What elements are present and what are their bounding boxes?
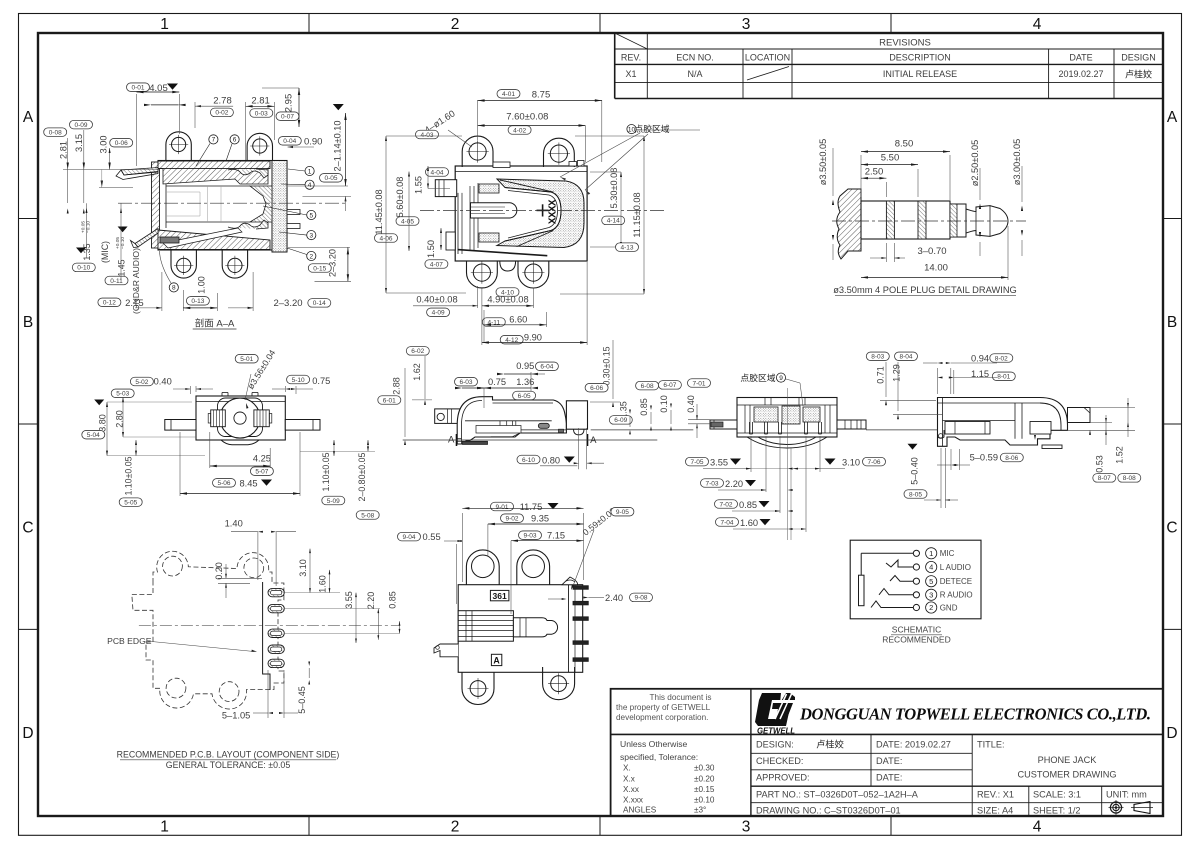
svg-text:1: 1 xyxy=(160,16,169,33)
bottom pads dark xyxy=(463,441,488,444)
dim 0.85 back xyxy=(715,500,738,509)
svg-text:X.: X. xyxy=(623,764,631,773)
front view bottom bulge xyxy=(221,440,259,445)
plug insulator ring 1 xyxy=(886,201,894,239)
plug body xyxy=(861,201,950,239)
svg-text:D: D xyxy=(1166,725,1177,742)
side view body outline xyxy=(457,397,566,444)
dim 3.10 back xyxy=(825,459,836,465)
front view barrel circle xyxy=(220,398,260,438)
svg-text:X.x: X.x xyxy=(623,774,635,783)
svg-text:0.30±0.15: 0.30±0.15 xyxy=(602,346,612,385)
bottom view body xyxy=(458,585,583,673)
bottom view top ear right xyxy=(517,550,550,585)
svg-text:2.50: 2.50 xyxy=(865,166,884,177)
svg-text:0.85: 0.85 xyxy=(739,500,757,510)
svg-text:0.80: 0.80 xyxy=(542,455,560,465)
svg-text:6-05: 6-05 xyxy=(518,393,531,400)
svg-text:8-05: 8-05 xyxy=(909,491,922,498)
pcb center line xyxy=(139,625,399,627)
schematic pin R AUDIO xyxy=(913,592,919,598)
pcb layout dashed outline xyxy=(132,551,284,709)
svg-text:2: 2 xyxy=(451,819,460,836)
terminal bar y 618.6 xyxy=(573,617,588,621)
svg-text:9-08: 9-08 xyxy=(634,595,647,602)
front view left contact window xyxy=(211,410,226,427)
svg-text:0-02: 0-02 xyxy=(215,110,228,117)
svg-text:剖面 A–A: 剖面 A–A xyxy=(195,317,235,329)
svg-text:7-04: 7-04 xyxy=(720,519,733,526)
inner shield wall lines xyxy=(505,188,561,242)
svg-text:DATE:: DATE: xyxy=(876,756,902,766)
top view center line xyxy=(420,209,664,211)
svg-text:6: 6 xyxy=(233,137,237,144)
top view: bottom ear left xyxy=(467,261,498,288)
svg-text:MIC: MIC xyxy=(940,549,955,558)
svg-text:8.75: 8.75 xyxy=(532,89,551,100)
svg-text:2.81: 2.81 xyxy=(251,96,270,107)
pcb dashed ear circle 4 xyxy=(219,682,239,702)
pcb pad at y 608.6 xyxy=(268,604,284,612)
svg-text:APPROVED:: APPROVED: xyxy=(756,773,810,783)
left flange verticals xyxy=(457,193,459,254)
svg-text:UNIT: mm: UNIT: mm xyxy=(1106,790,1147,800)
top-right step tabs xyxy=(569,162,577,167)
svg-text:8: 8 xyxy=(172,285,176,292)
section A-A body outline xyxy=(158,161,287,251)
svg-text:DESIGN:: DESIGN: xyxy=(756,740,794,750)
svg-text:8.45: 8.45 xyxy=(239,478,257,488)
svg-text:ANGLES: ANGLES xyxy=(623,806,657,815)
361 marking box xyxy=(490,590,509,600)
top view: mounting ear left xyxy=(462,136,493,167)
plug flange hatched xyxy=(837,189,861,259)
svg-text:SHEET: 1/2: SHEET: 1/2 xyxy=(1033,806,1081,816)
svg-text:R AUDIO: R AUDIO xyxy=(940,591,973,600)
svg-text:9-05: 9-05 xyxy=(616,509,629,516)
svg-text:PHONE JACK: PHONE JACK xyxy=(1038,755,1098,765)
left terminal top view xyxy=(435,180,456,197)
svg-text:REVISIONS: REVISIONS xyxy=(879,38,931,49)
svg-text:6-01: 6-01 xyxy=(383,397,396,404)
projection symbol circle xyxy=(1110,802,1121,813)
left dim lines xyxy=(63,169,160,171)
small contact blocks xyxy=(479,184,499,193)
dim 0.40 back xyxy=(688,379,711,388)
dim 3.55 back xyxy=(686,457,709,466)
GETWELL logo xyxy=(755,693,795,736)
svg-text:D: D xyxy=(22,725,33,742)
svg-text:4.90±0.08: 4.90±0.08 xyxy=(487,294,528,304)
svg-text:8-01: 8-01 xyxy=(997,374,1010,381)
svg-text:±0.15: ±0.15 xyxy=(694,785,715,794)
dim 1.60 back xyxy=(716,518,739,527)
svg-text:0.20: 0.20 xyxy=(214,562,224,580)
svg-text:4-12: 4-12 xyxy=(505,337,518,344)
svg-text:1.52: 1.52 xyxy=(1114,446,1124,464)
dim 0.80 side bottom xyxy=(517,455,540,464)
svg-text:A: A xyxy=(1167,109,1178,126)
svg-text:±0.30: ±0.30 xyxy=(694,764,715,773)
svg-text:2.95: 2.95 xyxy=(284,94,295,113)
svg-text:A: A xyxy=(590,435,597,446)
section A-A view: top mounting ear left xyxy=(166,132,191,161)
svg-text:2: 2 xyxy=(451,16,460,33)
svg-text:1: 1 xyxy=(929,549,933,558)
svg-text:0-14: 0-14 xyxy=(313,300,326,307)
svg-text:7.60±0.08: 7.60±0.08 xyxy=(506,112,548,123)
svg-text:0-10: 0-10 xyxy=(77,265,90,272)
svg-text:5–1.05: 5–1.05 xyxy=(222,711,250,721)
svg-text:5-07: 5-07 xyxy=(255,469,268,476)
top wall hatched (shell) xyxy=(158,161,270,169)
top wall hatched (insulator) xyxy=(163,169,268,185)
shield inner cavity diagonals xyxy=(500,180,554,192)
plug center line xyxy=(832,220,1026,222)
top latch step xyxy=(493,162,510,168)
svg-text:0-07: 0-07 xyxy=(281,114,294,121)
svg-text:DRAWING NO.: C–ST0326D0T–01: DRAWING NO.: C–ST0326D0T–01 xyxy=(756,806,901,816)
back view left wing xyxy=(710,420,737,429)
svg-text:4-13: 4-13 xyxy=(620,244,633,251)
svg-text:B: B xyxy=(23,314,33,331)
svg-text:4: 4 xyxy=(1033,819,1042,836)
schematic box xyxy=(850,540,981,619)
svg-text:0.40: 0.40 xyxy=(686,395,696,413)
svg-text:1.40: 1.40 xyxy=(225,519,243,529)
back view body xyxy=(737,398,837,438)
svg-text:1.60: 1.60 xyxy=(317,575,327,593)
dim 1.62 side xyxy=(406,347,429,356)
svg-text:2.81: 2.81 xyxy=(59,141,69,159)
dim 2.20 back xyxy=(701,479,724,488)
plug step section xyxy=(950,204,966,237)
svg-text:7.15: 7.15 xyxy=(547,531,565,541)
svg-text:development corporation.: development corporation. xyxy=(616,713,708,722)
svg-text:0.40: 0.40 xyxy=(154,377,172,387)
svg-text:5-09: 5-09 xyxy=(327,498,340,505)
revision table corner diagonal xyxy=(615,33,648,49)
svg-text:2.40: 2.40 xyxy=(605,593,623,603)
right end cap stippled xyxy=(272,161,287,253)
svg-text:9.90: 9.90 xyxy=(524,332,542,342)
svg-text:9-02: 9-02 xyxy=(505,516,518,523)
svg-text:4-03: 4-03 xyxy=(420,132,433,139)
svg-text:5.30±0.08: 5.30±0.08 xyxy=(609,168,619,209)
svg-text:4-07: 4-07 xyxy=(430,261,443,268)
upper left contact spring plate xyxy=(121,168,158,176)
side view inner structure xyxy=(465,420,552,422)
svg-text:3.00: 3.00 xyxy=(99,136,109,154)
front view right wing xyxy=(285,420,320,431)
svg-text:5-06: 5-06 xyxy=(217,480,230,487)
svg-text:N/A: N/A xyxy=(687,69,702,79)
top view body outline xyxy=(455,166,587,261)
leg at 751 xyxy=(749,422,751,434)
back view bottom arc xyxy=(737,437,837,445)
svg-text:0.85: 0.85 xyxy=(639,398,649,416)
right view terminal xyxy=(1068,408,1091,423)
svg-text:DESCRIPTION: DESCRIPTION xyxy=(889,53,951,63)
svg-text:X.xxx: X.xxx xyxy=(623,796,643,805)
right view inner elbow xyxy=(1040,403,1061,430)
svg-text:8-02: 8-02 xyxy=(995,355,1008,362)
bottom mounting ear right xyxy=(222,250,247,278)
svg-text:1.50: 1.50 xyxy=(426,240,436,258)
balloon 2 xyxy=(307,251,316,260)
svg-text:6-09: 6-09 xyxy=(614,417,627,424)
svg-text:0-05: 0-05 xyxy=(324,175,337,182)
horseshoe stippled shield xyxy=(497,179,584,248)
svg-text:DATE: 2019.02.27: DATE: 2019.02.27 xyxy=(876,740,951,750)
right view bottom tab xyxy=(1042,445,1062,449)
location diagonal mark xyxy=(747,67,789,81)
svg-text:TITLE:: TITLE: xyxy=(977,740,1005,750)
svg-text:5-05: 5-05 xyxy=(124,499,137,506)
svg-text:DESIGN: DESIGN xyxy=(1121,53,1156,63)
balloon 4 xyxy=(305,180,314,189)
svg-text:DETECE: DETECE xyxy=(940,577,972,586)
left lower step xyxy=(446,232,455,250)
svg-text:3.55: 3.55 xyxy=(710,457,728,467)
svg-text:2.78: 2.78 xyxy=(213,96,232,107)
svg-text:DONGGUAN TOPWELL ELECTRONICS: DONGGUAN TOPWELL ELECTRONICS CO.,LTD. xyxy=(799,705,1151,724)
svg-text:SIZE: A4: SIZE: A4 xyxy=(977,806,1013,816)
svg-text:PCB EDGE: PCB EDGE xyxy=(107,636,152,646)
svg-text:点胶区域: 点胶区域 xyxy=(740,372,775,383)
svg-text:0.75: 0.75 xyxy=(312,376,330,386)
svg-text:ø3.50mm 4 POLE PLUG DETAIL: ø3.50mm 4 POLE PLUG DETAIL DRAWING xyxy=(833,285,1017,295)
bottom view top ear left xyxy=(466,550,499,585)
svg-text:ø3.00±0.05: ø3.00±0.05 xyxy=(1012,139,1022,185)
svg-text:RECOMMENDED P.C.B. LAYOUT (: RECOMMENDED P.C.B. LAYOUT (COMPONENT SID… xyxy=(117,749,340,759)
svg-text:5-02: 5-02 xyxy=(135,379,148,386)
pcb pad at y 592.6 xyxy=(268,588,284,596)
side view inner elbow curve xyxy=(462,401,483,445)
svg-text:6-06: 6-06 xyxy=(590,385,603,392)
svg-text:specified, Tolerance:: specified, Tolerance: xyxy=(620,752,698,762)
svg-text:1.60: 1.60 xyxy=(740,518,758,528)
svg-text:SCHEMATIC: SCHEMATIC xyxy=(892,625,941,635)
svg-text:2–3.20: 2–3.20 xyxy=(273,298,302,309)
svg-text:0-09: 0-09 xyxy=(74,122,87,129)
svg-text:the property of GETWELL: the property of GETWELL xyxy=(616,703,711,712)
bottom view striped block (pin base) xyxy=(458,611,513,642)
svg-text:3.55: 3.55 xyxy=(344,591,354,609)
back view right wing xyxy=(837,420,866,429)
svg-text:1: 1 xyxy=(160,819,169,836)
side view right panel xyxy=(566,401,587,429)
svg-text:INITIAL RELEASE: INITIAL RELEASE xyxy=(883,69,957,79)
bottom dims xyxy=(98,298,121,307)
svg-text:2.88: 2.88 xyxy=(392,377,402,395)
pcb pad at y 649.2 xyxy=(268,645,284,653)
datum arrows on mounting line right view xyxy=(1089,430,1091,435)
funnel hatched block xyxy=(250,186,272,222)
small dark oval detail xyxy=(538,423,549,428)
svg-text:LOCATION: LOCATION xyxy=(745,53,790,63)
svg-text:0.95: 0.95 xyxy=(516,361,534,371)
svg-text:5-01: 5-01 xyxy=(240,356,253,363)
pcb edge solid line xyxy=(263,582,270,690)
front view right contact window xyxy=(254,410,269,427)
svg-text:5-04: 5-04 xyxy=(87,432,100,439)
balloon 0-05 xyxy=(320,174,343,183)
A marking box xyxy=(491,654,501,665)
svg-text:8.50: 8.50 xyxy=(895,139,914,150)
svg-text:ø2.50±0.05: ø2.50±0.05 xyxy=(970,140,980,186)
plug neck and tip xyxy=(966,206,1008,237)
svg-text:2–1.14±0.10: 2–1.14±0.10 xyxy=(333,120,343,171)
svg-text:2: 2 xyxy=(309,253,313,260)
bottom view corner detail xyxy=(562,577,578,585)
svg-text:XXXX: XXXX xyxy=(548,199,559,224)
svg-text:4-01: 4-01 xyxy=(502,91,515,98)
svg-text:9: 9 xyxy=(779,375,783,382)
svg-text:ECN NO.: ECN NO. xyxy=(676,53,714,63)
bottom mounting ear left xyxy=(171,250,196,278)
bottom view bottom ear right xyxy=(543,667,575,700)
svg-text:0-13: 0-13 xyxy=(191,298,204,305)
projection symbol cone xyxy=(1134,802,1150,814)
dim 7.15 bottom view xyxy=(519,531,542,540)
zone row dividers xyxy=(19,218,39,220)
leg at 780 xyxy=(778,422,780,434)
svg-text:1.35: 1.35 xyxy=(82,243,92,260)
svg-text:X.xx: X.xx xyxy=(623,785,639,794)
schematic pin MIC xyxy=(913,550,919,556)
svg-text:Unless Otherwise: Unless Otherwise xyxy=(620,739,688,749)
dim 0.55 bottom view xyxy=(398,532,421,541)
svg-text:0.55: 0.55 xyxy=(423,532,441,542)
plus mark xyxy=(537,209,549,211)
svg-text:5–0.59: 5–0.59 xyxy=(970,453,998,463)
schematic sleeve bar xyxy=(859,575,865,606)
right view inner verticals xyxy=(1014,403,1016,439)
dim 0.75 side xyxy=(455,377,478,386)
dim 11.75 bottom view xyxy=(491,502,514,511)
plug insulator ring 2 xyxy=(918,201,926,239)
revision table xyxy=(614,33,616,99)
svg-text:4-02: 4-02 xyxy=(513,127,526,134)
svg-text:0.94: 0.94 xyxy=(971,354,989,364)
terminal bar y 587.5 xyxy=(573,586,588,590)
svg-text:A: A xyxy=(493,656,500,666)
svg-text:C: C xyxy=(22,520,33,537)
svg-text:2019.02.27: 2019.02.27 xyxy=(1058,69,1103,79)
svg-text:2.20: 2.20 xyxy=(725,479,743,489)
svg-text:1.10±0.05: 1.10±0.05 xyxy=(124,456,134,495)
svg-text:REV.: X1: REV.: X1 xyxy=(977,790,1014,800)
svg-text:3.80: 3.80 xyxy=(98,414,108,432)
svg-text:3: 3 xyxy=(742,16,751,33)
dim 3.80 / 2.80 front xyxy=(94,400,104,406)
zone column dividers xyxy=(308,14,310,34)
front view small top tabs xyxy=(221,393,223,397)
svg-text:8-06: 8-06 xyxy=(1005,455,1018,462)
dim ø3.56 front xyxy=(235,354,258,363)
svg-text:1.29: 1.29 xyxy=(892,364,902,382)
pcb pad at y 663.4 xyxy=(268,659,284,667)
pcb dashed ear circle 1 xyxy=(163,556,183,576)
dim 0.71 / 1.29 right xyxy=(866,352,889,361)
terminal bar y 642.6 xyxy=(573,641,588,645)
leg at 820 xyxy=(818,422,820,434)
left lower dims (MIC / GND&R AUDIO) xyxy=(76,248,86,254)
svg-text:点胶区域: 点胶区域 xyxy=(634,123,669,134)
svg-text:5.50: 5.50 xyxy=(881,152,900,163)
svg-text:4-04: 4-04 xyxy=(430,169,443,176)
svg-text:RECOMMENDED: RECOMMENDED xyxy=(882,635,950,645)
svg-text:1: 1 xyxy=(308,168,312,175)
svg-text:5.60±0.08: 5.60±0.08 xyxy=(395,177,405,218)
left dims: balloons xyxy=(44,128,67,137)
bottom view pin shaft xyxy=(513,618,557,637)
terminal bar y 603.1 xyxy=(573,601,588,605)
svg-text:7-06: 7-06 xyxy=(867,459,880,466)
svg-text:L AUDIO: L AUDIO xyxy=(940,563,971,572)
svg-text:5-10: 5-10 xyxy=(292,377,305,384)
svg-text:7-05: 7-05 xyxy=(690,459,703,466)
svg-text:1.36: 1.36 xyxy=(516,377,534,387)
svg-text:3: 3 xyxy=(742,819,751,836)
lower wavy spring contact xyxy=(228,220,268,229)
svg-text:0-08: 0-08 xyxy=(49,129,62,136)
svg-text:5: 5 xyxy=(309,212,313,219)
svg-text:7-03: 7-03 xyxy=(705,480,718,487)
svg-text:卢桂姣: 卢桂姣 xyxy=(1125,69,1152,80)
schematic pin GND xyxy=(913,604,919,610)
svg-text:2.15: 2.15 xyxy=(125,298,144,309)
svg-text:3.10: 3.10 xyxy=(298,559,308,577)
svg-text:±0.20: ±0.20 xyxy=(694,774,715,783)
inner barrel lines xyxy=(165,184,167,228)
svg-text:SCALE: 3:1: SCALE: 3:1 xyxy=(1033,790,1081,800)
bottom wall hatched xyxy=(158,230,270,250)
bottom dip between ear tabs xyxy=(500,261,516,271)
balloon 6 xyxy=(230,135,239,144)
bottom-left thick edge xyxy=(458,250,548,256)
svg-text:B: B xyxy=(1167,314,1177,331)
center ext lines back view xyxy=(787,388,789,540)
front view body xyxy=(196,396,285,440)
svg-text:11.75: 11.75 xyxy=(520,502,543,512)
svg-text:3: 3 xyxy=(309,232,313,239)
section A-A view: top mounting ear right xyxy=(247,133,272,161)
svg-text:6-02: 6-02 xyxy=(411,348,424,355)
svg-text:GETWELL: GETWELL xyxy=(757,727,795,736)
leg at 806 xyxy=(804,422,806,434)
svg-text:8-03: 8-03 xyxy=(871,354,884,361)
svg-text:3–0.70: 3–0.70 xyxy=(917,246,946,257)
schematic pin DETECE xyxy=(913,578,919,584)
pcb pad at y 633.3 xyxy=(268,629,284,637)
svg-text:0-03: 0-03 xyxy=(255,110,268,117)
svg-text:1.62: 1.62 xyxy=(412,363,422,381)
svg-text:5–0.45: 5–0.45 xyxy=(297,686,307,714)
dim 4.05 top xyxy=(127,83,150,92)
svg-text:11.15±0.08: 11.15±0.08 xyxy=(632,192,642,237)
svg-text:0.75: 0.75 xyxy=(488,377,506,387)
svg-text:CHECKED:: CHECKED: xyxy=(756,756,803,766)
svg-text:0.85: 0.85 xyxy=(387,591,397,609)
svg-text:0-01: 0-01 xyxy=(131,85,144,92)
svg-text:±0.10: ±0.10 xyxy=(694,796,715,805)
pcb dashed ear circle 3 xyxy=(166,678,186,698)
svg-text:0.53: 0.53 xyxy=(1094,455,1104,473)
right view shelf xyxy=(943,420,1016,422)
svg-text:9-03: 9-03 xyxy=(523,533,536,540)
